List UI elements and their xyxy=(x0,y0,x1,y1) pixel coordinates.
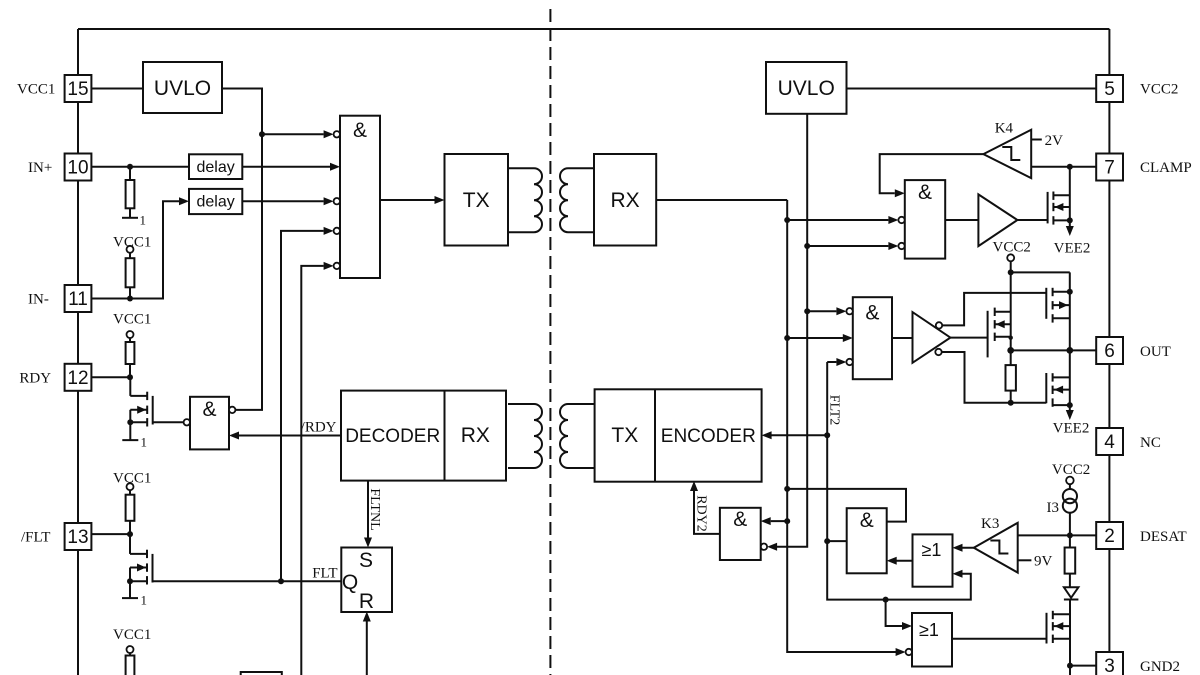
svg-text:K4: K4 xyxy=(995,121,1014,137)
svg-text:&: & xyxy=(733,508,747,531)
comparator K4 xyxy=(983,130,1031,178)
svg-text:/RDY: /RDY xyxy=(301,420,337,436)
supply VEE2 arrow xyxy=(1066,226,1074,236)
svg-text:3: 3 xyxy=(1104,656,1115,675)
svg-text:&: & xyxy=(202,398,216,421)
svg-text:RX: RX xyxy=(461,424,490,447)
resistor R6 xyxy=(1006,365,1016,391)
svg-text:K3: K3 xyxy=(981,516,999,532)
node IN- xyxy=(127,296,133,302)
wire delay1 to AND1 in2 xyxy=(242,166,331,168)
wire UVLO2 to NAND2 in3 xyxy=(807,245,888,247)
pin 15 xyxy=(65,75,92,102)
svg-text:UVLO: UVLO xyxy=(154,77,211,100)
svg-text:6: 6 xyxy=(1104,341,1115,362)
svg-text:VCC1: VCC1 xyxy=(113,312,151,328)
wire 2V threshold xyxy=(1031,139,1042,141)
op block UVLO U1 xyxy=(143,62,222,113)
node UVLO2 taps xyxy=(804,243,810,249)
pin 12 xyxy=(65,364,92,391)
node RX bus taps xyxy=(784,217,790,223)
svg-text:IN-: IN- xyxy=(28,292,49,308)
wire FLT2 to U9 output node xyxy=(827,540,847,542)
svg-text:FLTNL: FLTNL xyxy=(367,488,382,530)
wire RX1 output xyxy=(656,199,787,201)
wire FLT2 to ENCODER xyxy=(766,434,828,436)
pin 7 xyxy=(1096,154,1123,181)
wire A2 apex to Q5 gate xyxy=(950,337,987,339)
svg-text:VEE2: VEE2 xyxy=(1053,421,1090,437)
svg-text:≥1: ≥1 xyxy=(922,540,942,560)
ground 1 xyxy=(129,208,131,218)
svg-text:UVLO: UVLO xyxy=(778,77,835,100)
svg-text:1: 1 xyxy=(140,213,147,228)
transistor Q5 (mid) xyxy=(987,311,989,358)
inverter A2 (dual output driver) xyxy=(913,312,951,363)
delay block D1 xyxy=(189,154,242,179)
wire right pin rail xyxy=(1108,29,1110,675)
wire 9V threshold xyxy=(1018,559,1032,561)
svg-text:VCC2: VCC2 xyxy=(1052,462,1090,478)
transformer T1 primary xyxy=(508,168,542,232)
resistor R2 xyxy=(129,253,131,258)
svg-text:&: & xyxy=(918,181,932,204)
svg-text:R: R xyxy=(359,590,374,613)
current source I3 xyxy=(1063,489,1077,503)
ground 1 xyxy=(122,597,138,599)
wire branch to OR2 in1 xyxy=(886,600,902,626)
wire UVLO2 to U7 in1 xyxy=(807,310,836,312)
wire DESAT xyxy=(1069,513,1071,536)
isolation barrier (dashed) xyxy=(549,9,551,675)
wire RDY2 xyxy=(694,489,720,534)
wire left pin rail xyxy=(77,29,79,675)
svg-text:VCC2: VCC2 xyxy=(993,240,1031,256)
svg-text:10: 10 xyxy=(67,158,88,179)
wire RX bus to NAND2 in2 xyxy=(787,219,888,221)
svg-text:1: 1 xyxy=(141,435,148,450)
wire GND2 xyxy=(1067,663,1073,669)
wire top gate drive xyxy=(942,293,1046,326)
wire U10 output to U9 xyxy=(891,560,913,562)
svg-text:delay: delay xyxy=(196,159,234,176)
svg-text:RX: RX xyxy=(611,189,640,212)
node IN+ xyxy=(127,164,133,170)
wire VCC2 to Q4 drain xyxy=(1011,271,1070,273)
AND gate U7 xyxy=(853,297,892,379)
svg-text:&: & xyxy=(353,119,367,142)
svg-text:VEE2: VEE2 xyxy=(1054,241,1091,257)
wire AND1 output to TX xyxy=(380,199,436,201)
svg-text:DECODER: DECODER xyxy=(345,426,440,447)
TX block xyxy=(445,154,509,246)
node /FLT xyxy=(127,531,133,537)
wire FLT2 to U7 in3 xyxy=(827,361,836,363)
svg-text:Q: Q xyxy=(342,571,358,594)
wire pin12 to node xyxy=(91,376,130,378)
svg-text:≥1: ≥1 xyxy=(919,620,939,640)
transistor Q4 (high side) xyxy=(1045,288,1047,319)
svg-text:&: & xyxy=(865,302,879,325)
svg-text:ENCODER: ENCODER xyxy=(661,426,756,447)
wire FLTNL (decoder to S) xyxy=(367,481,369,540)
wire delay2 to AND1 in3 xyxy=(242,200,323,202)
pin 11 xyxy=(65,285,92,312)
wire pin13 to node xyxy=(91,533,130,535)
AND gate U8 xyxy=(720,508,761,560)
transistor Q2 xyxy=(152,554,154,583)
supply VEE2 arrow (output stage) xyxy=(1066,410,1074,420)
node UVLO1 xyxy=(259,131,265,137)
svg-text:CLAMP: CLAMP xyxy=(1140,160,1192,176)
wire UVLO1 to AND1 in1 xyxy=(262,133,324,135)
diode D1 xyxy=(1064,587,1079,598)
OR gate U10 xyxy=(913,534,953,586)
svg-text:FLT2: FLT2 xyxy=(827,395,842,426)
wire K3 output to U10 in1 xyxy=(957,547,974,549)
AND gate U6 xyxy=(905,180,945,259)
wire IN- to delay2 xyxy=(91,201,180,298)
svg-text:NC: NC xyxy=(1140,435,1161,451)
transistor Q1 xyxy=(152,396,154,425)
svg-text:9V: 9V xyxy=(1034,554,1053,570)
svg-text:VCC2: VCC2 xyxy=(1140,82,1178,98)
svg-text:4: 4 xyxy=(1104,432,1115,453)
svg-text:delay: delay xyxy=(196,194,234,211)
svg-text:OUT: OUT xyxy=(1140,344,1171,360)
wire OUT row xyxy=(1011,349,1096,351)
svg-text:12: 12 xyxy=(67,368,88,389)
svg-text:IN+: IN+ xyxy=(28,160,52,176)
svg-text:11: 11 xyxy=(68,289,88,310)
transistor Q3 xyxy=(1047,192,1049,224)
svg-text:RDY2: RDY2 xyxy=(694,495,709,532)
wire IN+ to delay1 xyxy=(91,166,189,168)
transistor Q6 (low side) xyxy=(1045,373,1047,403)
RX block xyxy=(594,154,656,246)
svg-text:15: 15 xyxy=(67,79,88,100)
svg-text:RDY: RDY xyxy=(19,370,51,386)
pin 10 xyxy=(65,154,92,181)
svg-text:I3: I3 xyxy=(1047,500,1060,516)
svg-text:TX: TX xyxy=(611,424,638,447)
wire U7 output xyxy=(892,337,913,339)
svg-text:/FLT: /FLT xyxy=(21,530,50,546)
wire UVLO1 output xyxy=(222,89,262,410)
resistor R1 xyxy=(129,167,131,180)
op block UVLO U5 xyxy=(766,62,847,114)
TX / ENCODER block xyxy=(595,389,762,481)
wire U11 output to Q7 gate xyxy=(952,638,1047,640)
wire Q1 gate xyxy=(153,421,184,423)
wire UVLO2 to pin5 xyxy=(847,88,1097,90)
resistor R5 xyxy=(129,653,131,656)
wire bottom gate drive xyxy=(942,352,1047,403)
wire R reset input xyxy=(366,620,368,675)
svg-text:FLT: FLT xyxy=(312,566,337,582)
transistor Q7 (DESAT pulldown) xyxy=(1046,613,1048,644)
wire UVLO2 output bus xyxy=(770,114,807,547)
svg-text:S: S xyxy=(359,549,373,572)
SR latch U4 xyxy=(341,548,392,613)
wire FLT2 net xyxy=(827,362,971,600)
wire FLT to AND1 in4 xyxy=(281,231,324,581)
svg-text:13: 13 xyxy=(67,527,88,548)
pin 3 xyxy=(1096,652,1123,675)
wire FLT (Q2 gate to latch Q) xyxy=(153,580,342,582)
NAND gate U3 xyxy=(184,419,190,425)
svg-text:5: 5 xyxy=(1104,79,1115,100)
pin 2 xyxy=(1096,522,1123,549)
wire comm loop to U9 xyxy=(787,489,906,522)
transformer T1 secondary xyxy=(560,168,594,232)
wire pin15 to UVLO xyxy=(91,88,143,90)
wire RX2 output bus xyxy=(787,200,902,652)
svg-text:&: & xyxy=(860,509,874,532)
svg-text:7: 7 xyxy=(1104,158,1115,179)
pin 5 xyxy=(1096,75,1123,102)
transformer T2 secondary xyxy=(560,404,595,468)
buffer A1 xyxy=(945,219,978,221)
pin 4 xyxy=(1096,428,1123,455)
pin 13 xyxy=(65,523,92,550)
svg-text:2V: 2V xyxy=(1045,133,1064,149)
DECODER / RX block xyxy=(341,391,506,481)
pin 6 xyxy=(1096,337,1123,364)
comparator K3 xyxy=(974,523,1018,573)
wire RX bus to U8 in1 xyxy=(771,520,788,522)
transformer T2 primary xyxy=(508,404,542,468)
node RDY xyxy=(127,374,133,380)
wire CLAMP xyxy=(1031,166,1096,168)
delay block D2 xyxy=(189,189,242,214)
svg-text:GND2: GND2 xyxy=(1140,659,1180,675)
OR gate U11 xyxy=(912,613,952,667)
AND gate U2 xyxy=(340,116,380,278)
wire top supply rail xyxy=(78,28,1109,30)
wire K4 output to NAND2 in1 xyxy=(880,154,984,193)
resistor R4 xyxy=(129,490,131,495)
svg-text:TX: TX xyxy=(463,189,490,212)
wire to AND1 in5 xyxy=(301,266,323,675)
svg-text:2: 2 xyxy=(1104,526,1115,547)
AND gate U9 xyxy=(847,508,887,573)
svg-text:DESAT: DESAT xyxy=(1140,529,1187,545)
resistor R3 xyxy=(129,338,131,342)
resistor R7 xyxy=(1069,535,1071,547)
svg-text:VCC1: VCC1 xyxy=(113,627,151,643)
block fragment (bottom edge) xyxy=(241,672,282,675)
ground 1 xyxy=(122,439,138,441)
wire /RDY xyxy=(233,435,341,437)
wire RX bus to U7 in2 xyxy=(787,337,844,339)
svg-text:1: 1 xyxy=(141,593,148,608)
svg-text:VCC1: VCC1 xyxy=(17,82,55,98)
